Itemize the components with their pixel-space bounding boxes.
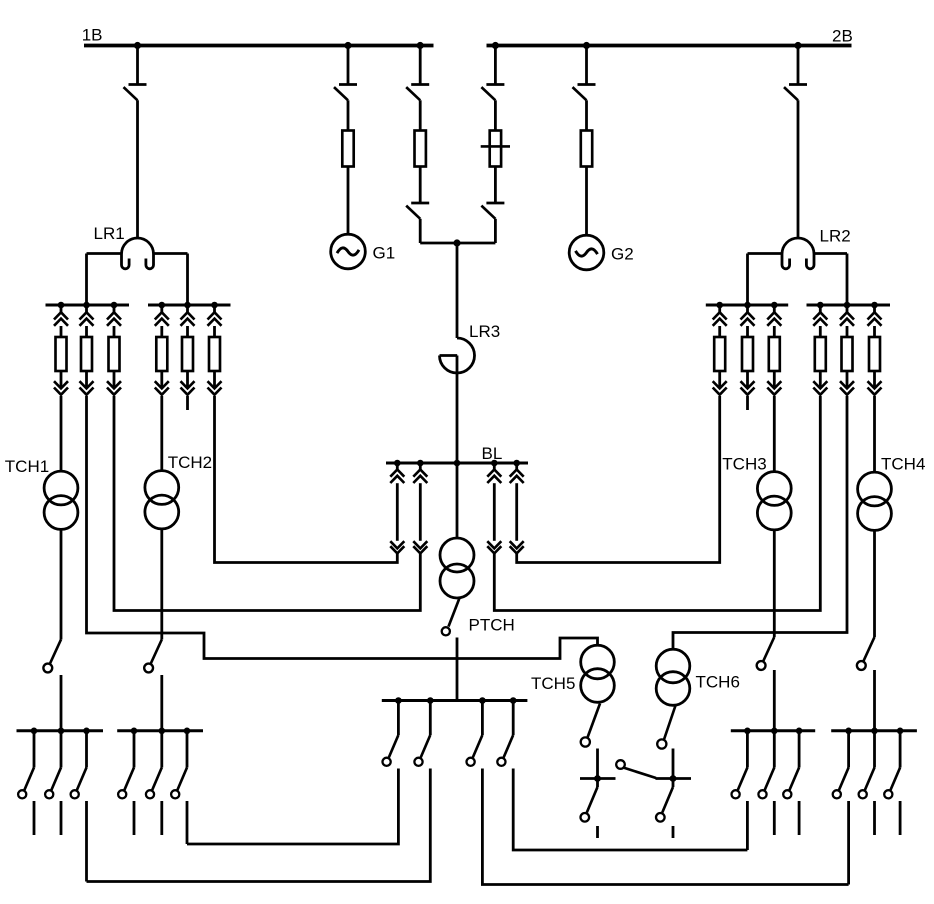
node on bar L1 <box>111 302 118 309</box>
node on bus 2B <box>583 42 590 49</box>
wire <box>420 219 457 243</box>
wire <box>873 530 876 638</box>
node on bar L1 <box>83 302 90 309</box>
node on BL <box>417 460 424 467</box>
node <box>58 728 65 735</box>
transformer TCH5 <box>581 645 615 702</box>
plug contact (down) <box>767 371 781 395</box>
disconnector QS13 <box>442 598 460 635</box>
wire <box>596 749 599 788</box>
fuse F12 <box>742 337 753 371</box>
node bar <box>656 775 692 782</box>
disconnector QS14 <box>581 704 600 747</box>
fuse F15 <box>842 337 853 371</box>
svg-text:LR1: LR1 <box>94 224 125 243</box>
wire <box>456 463 459 539</box>
switch S2 <box>414 735 430 766</box>
bus (sec C) <box>731 729 815 732</box>
label 1B <box>82 26 103 45</box>
wire <box>814 254 847 306</box>
svg-text:TCH5: TCH5 <box>531 674 575 693</box>
wire <box>160 675 163 731</box>
node on BL <box>454 460 461 467</box>
disconnector QS16 <box>657 706 675 749</box>
fuse F6 <box>81 337 92 371</box>
wire <box>60 731 63 768</box>
wire <box>136 100 139 238</box>
stub wire <box>160 801 163 835</box>
wire <box>87 254 122 306</box>
node <box>871 728 878 735</box>
svg-text:BL: BL <box>482 444 503 463</box>
plug contact (up) <box>54 305 68 337</box>
bus BL <box>386 462 528 465</box>
plug contact (down) <box>107 371 121 395</box>
wire <box>746 731 749 768</box>
wire <box>797 46 800 85</box>
label 2B <box>832 27 853 46</box>
wire <box>347 100 350 130</box>
plug contact pair (BL) <box>413 463 427 556</box>
switch S4 <box>497 735 513 766</box>
wire to TCH2 <box>160 396 163 471</box>
wire <box>773 731 776 768</box>
disconnector QS1 <box>124 85 147 101</box>
plug contact (up) <box>181 305 195 337</box>
node <box>31 728 38 735</box>
plug contact (up) <box>208 305 222 337</box>
wire <box>33 731 36 768</box>
svg-text:2B: 2B <box>832 27 853 46</box>
generator G2 <box>569 235 604 270</box>
switch S3 <box>467 735 483 766</box>
node on bus 2B <box>794 42 801 49</box>
wire <box>512 701 515 736</box>
plug contact (up) <box>813 305 827 337</box>
wire to TCH1 <box>60 396 63 472</box>
node on bar L2 <box>211 302 218 309</box>
stub wire <box>899 801 902 835</box>
disconnector QS11 <box>757 637 775 670</box>
switch S1 <box>383 735 399 766</box>
fuse F4 <box>581 131 592 167</box>
wire <box>136 46 139 85</box>
wire <box>585 46 588 85</box>
wire <box>873 731 876 768</box>
switch <box>758 768 774 799</box>
wire <box>494 167 497 204</box>
plug contact pair (BL) <box>390 463 404 556</box>
bus bar L1 <box>46 304 130 307</box>
reactor LR1 <box>122 238 154 269</box>
switch <box>45 768 61 799</box>
stub wire <box>746 396 749 410</box>
label TCH2 <box>168 453 212 472</box>
transformer PTCH <box>440 538 474 598</box>
switch <box>71 768 87 799</box>
bus bar R1 <box>706 304 788 307</box>
switch <box>884 768 900 799</box>
wire <box>60 675 63 731</box>
wire <box>798 731 801 768</box>
plug contact pair (BL) <box>487 463 501 556</box>
tie wire <box>187 769 398 845</box>
svg-text:1B: 1B <box>82 26 103 45</box>
plug contact (down) <box>155 371 169 395</box>
stub wire <box>672 826 675 838</box>
stub wire <box>33 801 36 835</box>
node on bar R2 <box>817 302 824 309</box>
tie wire <box>513 769 747 851</box>
wire <box>347 46 350 85</box>
stub wire <box>596 826 599 838</box>
plug contact (down) <box>741 371 755 395</box>
bus 1B <box>84 44 434 48</box>
disconnector QS4 <box>406 203 429 219</box>
disconnector QS17 <box>656 787 673 822</box>
wire <box>186 801 189 844</box>
node on BL <box>394 460 401 467</box>
fuse F1 <box>342 131 353 167</box>
plug contact (down) <box>181 371 195 395</box>
label LR3 <box>469 322 500 341</box>
node on bar R1 <box>744 302 751 309</box>
wire to BL <box>494 396 820 611</box>
node on bar R1 <box>771 302 778 309</box>
fuse F2 <box>415 131 426 167</box>
transformer TCH6 <box>656 649 690 705</box>
wire <box>397 701 400 736</box>
node <box>83 728 90 735</box>
stub wire <box>773 801 776 835</box>
wire <box>797 100 800 238</box>
wire <box>873 670 876 731</box>
wire <box>154 254 188 306</box>
node <box>897 728 904 735</box>
node on bar L1 <box>58 302 65 309</box>
node <box>510 697 517 704</box>
node <box>159 728 166 735</box>
bus (aux center) <box>382 699 528 702</box>
wire <box>85 801 88 882</box>
label LR1 <box>94 224 125 243</box>
wire <box>419 167 422 204</box>
plug contact (up) <box>155 305 169 337</box>
plug contact (down) <box>868 371 882 395</box>
wire <box>160 528 163 640</box>
plug contact (down) <box>813 371 827 395</box>
disconnector QS2 <box>334 85 357 101</box>
wire <box>748 254 783 306</box>
node <box>796 728 803 735</box>
plug contact pair (BL) <box>510 463 524 556</box>
fuse-breaker F3 <box>481 131 510 167</box>
switch <box>859 768 875 799</box>
wire <box>456 243 459 338</box>
stub wire <box>133 801 136 835</box>
wire <box>133 731 136 768</box>
fuse F14 <box>815 337 826 371</box>
tie disconnector QS18 <box>616 760 656 778</box>
label TCH4 <box>881 455 925 474</box>
node on bar L2 <box>159 302 166 309</box>
label BL <box>482 444 503 463</box>
node on bar R1 <box>716 302 723 309</box>
bus bar L2 <box>148 304 231 307</box>
node on bar R2 <box>871 302 878 309</box>
svg-text:G2: G2 <box>611 245 634 264</box>
bus (sec B) <box>117 729 203 732</box>
plug contact (down) <box>80 371 94 395</box>
svg-text:TCH6: TCH6 <box>696 673 740 692</box>
node on bus 1B <box>134 42 141 49</box>
disconnector QS9 <box>43 640 61 673</box>
node A <box>453 239 460 246</box>
wire <box>847 801 850 885</box>
node <box>427 697 434 704</box>
plug contact (up) <box>80 305 94 337</box>
plug contact (down) <box>54 371 68 395</box>
plug contact (up) <box>868 305 882 337</box>
plug contact (up) <box>840 305 854 337</box>
svg-text:TCH2: TCH2 <box>168 453 212 472</box>
wire <box>494 100 497 130</box>
wire to BL <box>215 396 398 563</box>
wire to TCH4 <box>873 396 876 472</box>
label PTCH <box>469 616 515 635</box>
fuse F13 <box>769 337 780 371</box>
plug contact (down) <box>840 371 854 395</box>
label TCH5 <box>531 674 575 693</box>
wire <box>160 731 163 768</box>
wire to BL <box>114 396 420 611</box>
switch <box>171 768 187 799</box>
svg-text:TCH3: TCH3 <box>722 455 766 474</box>
svg-text:PTCH: PTCH <box>469 616 515 635</box>
wire <box>585 100 588 130</box>
switch <box>146 768 162 799</box>
node <box>744 728 751 735</box>
node on BL <box>513 460 520 467</box>
wire <box>419 46 422 85</box>
generator G1 <box>331 234 366 269</box>
wire <box>429 701 432 736</box>
plug contact (up) <box>107 305 121 337</box>
node on bus 1B <box>344 42 351 49</box>
node <box>395 697 402 704</box>
node <box>184 728 191 735</box>
label TCH6 <box>696 673 740 692</box>
reactor LR2 <box>782 238 814 269</box>
fuse F16 <box>869 337 880 371</box>
fuse F9 <box>182 337 193 371</box>
svg-text:LR2: LR2 <box>820 227 851 246</box>
crossover wire to TCH6 <box>673 396 847 650</box>
transformer TCH3 <box>757 472 791 530</box>
fuse F7 <box>109 337 120 371</box>
disconnector QS15 <box>581 787 598 822</box>
label LR2 <box>820 227 851 246</box>
switch <box>118 768 134 799</box>
label G1 <box>373 244 396 263</box>
stub wire <box>60 801 63 835</box>
switch <box>18 768 34 799</box>
plug contact (down) <box>208 371 222 395</box>
plug contact (up) <box>741 305 755 337</box>
wire <box>672 749 675 788</box>
wire <box>494 46 497 85</box>
stub wire <box>798 801 801 835</box>
plug contact (down) <box>713 371 727 395</box>
node bar <box>580 775 616 782</box>
node <box>131 728 138 735</box>
wire to TCH3 <box>773 396 776 472</box>
fuse F5 <box>56 337 67 371</box>
transformer TCH4 <box>858 472 892 530</box>
node on bar R2 <box>844 302 851 309</box>
wire <box>85 731 88 768</box>
plug contact (up) <box>713 305 727 337</box>
disconnector QS10 <box>144 640 162 673</box>
switch <box>783 768 799 799</box>
wire <box>847 731 850 768</box>
switch <box>833 768 849 799</box>
disconnector QS6 <box>481 203 504 219</box>
node on bus 1B <box>417 42 424 49</box>
node on BL <box>491 460 498 467</box>
wire <box>481 701 484 736</box>
node on bus 2B <box>492 42 499 49</box>
svg-text:TCH4: TCH4 <box>881 455 925 474</box>
wire <box>746 801 749 850</box>
fuse F8 <box>156 337 167 371</box>
wire <box>457 219 495 243</box>
wire <box>186 731 189 768</box>
stub wire <box>186 396 189 410</box>
wire <box>899 731 902 768</box>
wire <box>419 100 422 130</box>
wire <box>60 529 63 640</box>
wire to BL <box>517 396 720 563</box>
svg-text:TCH1: TCH1 <box>5 457 49 476</box>
node on bar L2 <box>184 302 191 309</box>
disconnector QS12 <box>857 637 875 670</box>
node <box>771 728 778 735</box>
bus (sec D) <box>831 729 917 732</box>
reactor LR3 <box>440 338 475 373</box>
crossover wire to TCH5 <box>87 396 598 659</box>
wire <box>773 529 776 637</box>
fuse F10 <box>209 337 220 371</box>
svg-text:G1: G1 <box>373 244 396 263</box>
fuse F11 <box>714 337 725 371</box>
disconnector QS7 <box>573 85 596 101</box>
disconnector QS8 <box>784 85 807 101</box>
bus (sec A) <box>17 729 104 732</box>
tie wire <box>87 769 431 882</box>
plug contact (up) <box>767 305 781 337</box>
label TCH1 <box>5 457 49 476</box>
bus bar R2 <box>807 304 891 307</box>
tie wire <box>482 769 848 885</box>
switch <box>732 768 748 799</box>
label TCH3 <box>722 455 766 474</box>
transformer TCH1 <box>44 471 78 529</box>
label G2 <box>611 245 634 264</box>
transformer TCH2 <box>145 471 179 529</box>
node <box>479 697 486 704</box>
wire <box>773 670 776 731</box>
bus 2B <box>487 44 852 48</box>
svg-text:LR3: LR3 <box>469 322 500 341</box>
disconnector QS3 <box>406 85 429 101</box>
node <box>845 728 852 735</box>
wire <box>456 356 459 464</box>
wire <box>585 167 588 236</box>
wire <box>456 638 459 701</box>
disconnector QS5 <box>481 85 504 101</box>
wire <box>347 167 350 235</box>
stub wire <box>873 801 876 835</box>
